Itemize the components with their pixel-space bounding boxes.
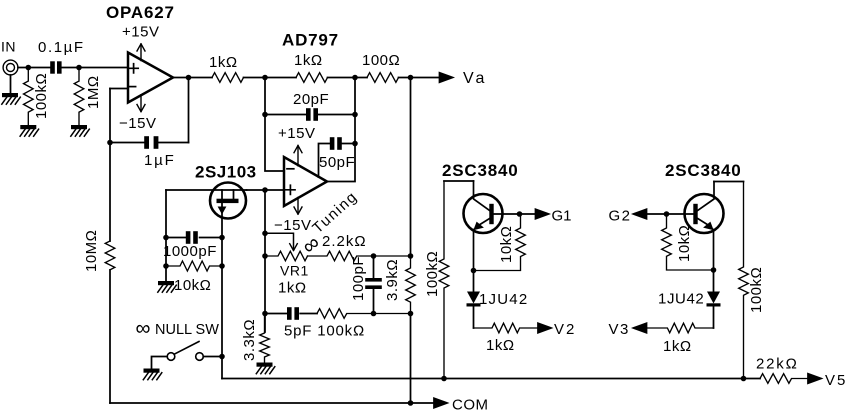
wire U1 output row <box>173 77 212 79</box>
node rail Q1 <box>441 376 447 382</box>
capacitor C 20pF <box>306 108 318 121</box>
op-amp U2 AD797 <box>284 157 327 206</box>
svg-text:0.1µF: 0.1µF <box>38 39 85 56</box>
svg-text:1kΩ: 1kΩ <box>486 337 515 354</box>
wire VR1 wiper arm <box>265 233 297 250</box>
node input-1M <box>76 65 82 71</box>
svg-text:1kΩ: 1kΩ <box>663 338 692 355</box>
switch SW1 (NULL) <box>152 342 223 369</box>
wire U2 output and right riser x355 <box>327 78 355 182</box>
arrow output COM <box>434 398 447 408</box>
capacitor C 100pF (vertical) <box>365 256 382 314</box>
svg-text:V3: V3 <box>609 321 630 338</box>
trimmer VR1 1kΩ zigzag <box>265 251 307 261</box>
node Q2 base <box>664 211 670 217</box>
svg-text:1µF: 1µF <box>144 152 176 169</box>
arrow output G1 <box>536 209 549 219</box>
svg-text:Va: Va <box>463 70 487 87</box>
svg-text:OPA627: OPA627 <box>106 3 175 22</box>
op-amp U1 OPA627 <box>128 53 173 103</box>
svg-text:V5: V5 <box>825 372 847 389</box>
wire Va column x410 lower <box>410 314 412 404</box>
wire U1 output drop to 1uF <box>188 78 190 143</box>
arrow output V5 <box>808 374 821 384</box>
ground (under IN) <box>2 93 21 104</box>
wire U1 inverting input to left rail <box>110 88 128 90</box>
svg-text:2SC3840: 2SC3840 <box>665 161 742 180</box>
supply +15V arrow (U1) <box>137 44 145 111</box>
node feedback A <box>262 75 268 81</box>
node row255 x373 <box>371 253 377 259</box>
wire U2 plus input <box>247 189 285 191</box>
wire cap to opamp <box>62 67 128 69</box>
node row255 x410 <box>408 253 414 259</box>
svg-text:VR1: VR1 <box>280 263 309 279</box>
ground (3.3k) <box>256 363 275 374</box>
node row313 x373 <box>371 311 377 317</box>
node 1000pF left <box>163 235 169 241</box>
svg-text:1JU42: 1JU42 <box>479 291 528 308</box>
resistor R 3.9kΩ (vertical) <box>406 256 416 314</box>
ground (under 100k) <box>20 125 39 136</box>
svg-text:1000pF: 1000pF <box>163 243 217 260</box>
svg-text:1kΩ: 1kΩ <box>294 52 323 69</box>
node gate-switch <box>219 354 225 360</box>
svg-text:1MΩ: 1MΩ <box>85 75 102 109</box>
wire 1k2 to node <box>328 77 368 79</box>
supply -15V arrow (U1) <box>137 105 145 112</box>
resistor R 10kΩ (Q2 b-e, vertical) <box>662 214 714 270</box>
ground (under 1M) <box>71 125 90 136</box>
wire left rail x110 (U1 minus down to COM) <box>109 89 111 404</box>
node Q2 emitter junction <box>711 267 717 273</box>
wire U2 minus rail x265 <box>265 78 284 172</box>
svg-text:20pF: 20pF <box>293 91 329 108</box>
svg-text:10MΩ: 10MΩ <box>83 230 100 272</box>
resistor R 3.3kΩ (vertical) <box>260 314 270 363</box>
arrow output Va <box>440 73 453 83</box>
wire gate column x222 down <box>221 238 223 379</box>
resistor R 100kΩ (Q2 collector, vertical) <box>739 182 749 379</box>
resistor R 100Ω <box>367 73 399 83</box>
svg-text:1kΩ: 1kΩ <box>278 280 307 297</box>
svg-text:100kΩ: 100kΩ <box>424 251 441 297</box>
node rail Q2 <box>741 376 747 382</box>
transistor Q2 2SC3840 (NPN mirrored) <box>646 182 724 271</box>
node Q1 emitter junction <box>471 268 477 274</box>
svg-text:10kΩ: 10kΩ <box>676 225 693 262</box>
svg-text:2SC3840: 2SC3840 <box>442 161 519 180</box>
svg-text:∞: ∞ <box>136 317 151 340</box>
wire 1k to node <box>244 77 297 79</box>
svg-text:+15V: +15V <box>122 24 159 41</box>
resistor R 10MΩ (left rail) <box>105 241 115 270</box>
ground (switch) <box>143 369 162 380</box>
resistor R 10kΩ (JFET) <box>166 261 222 271</box>
wire Q1 emitter to diode <box>473 271 475 292</box>
resistor R 100kΩ (Q1 collector, vertical) <box>439 181 449 379</box>
node 1uF left <box>107 140 113 146</box>
svg-text:10kΩ: 10kΩ <box>174 277 211 294</box>
node VR1 left <box>262 253 268 259</box>
ground (1000pF node) <box>158 281 177 292</box>
svg-text:AD797: AD797 <box>282 31 339 50</box>
svg-text:50pF: 50pF <box>319 154 355 171</box>
arrow output V2 <box>538 323 551 333</box>
arrow output V3 <box>634 323 647 333</box>
resistor R 100kΩ (servo) <box>317 309 411 319</box>
wire 100R to Va <box>399 77 441 79</box>
node 50pF right <box>352 141 358 147</box>
svg-text:IN: IN <box>1 39 16 55</box>
node COM x410 <box>408 400 414 406</box>
node Va column <box>408 75 414 81</box>
capacitor C 1µF (U1 feedback) <box>110 136 189 149</box>
resistor R 1kΩ (Q1 out) <box>474 323 539 333</box>
svg-text:2SJ103: 2SJ103 <box>195 163 257 182</box>
node U2 out top <box>352 75 358 81</box>
wire 20pF row <box>265 114 355 116</box>
connector J1 (input jack) <box>3 60 18 75</box>
node Q1 base <box>517 211 523 217</box>
svg-text:5pF 100kΩ: 5pF 100kΩ <box>284 323 365 340</box>
wire Q2 emitter to diode <box>713 270 715 292</box>
svg-text:100pF: 100pF <box>350 256 367 301</box>
resistor R 1MΩ <box>74 68 84 126</box>
svg-text:100Ω: 100Ω <box>362 52 400 69</box>
supply -15V arrow (U2) <box>294 207 302 214</box>
capacitor C 1000pF <box>166 231 222 244</box>
node 5pF left <box>262 311 268 317</box>
resistor R 1kΩ (U2 feedback) <box>296 73 328 83</box>
svg-text:3.9kΩ: 3.9kΩ <box>384 259 401 301</box>
svg-text:3.3kΩ: 3.3kΩ <box>241 319 258 361</box>
svg-text:2.2kΩ: 2.2kΩ <box>322 233 367 250</box>
resistor R 1kΩ (U1 out) <box>212 73 243 83</box>
wire COM rail <box>110 402 434 404</box>
arrow output G2 <box>634 209 647 219</box>
svg-text:G1: G1 <box>552 208 572 225</box>
svg-text:−15V: −15V <box>119 115 156 132</box>
svg-text:22kΩ: 22kΩ <box>756 356 799 373</box>
capacitor C 0.1µF <box>50 61 61 73</box>
svg-text:+15V: +15V <box>278 125 315 142</box>
svg-text:1kΩ: 1kΩ <box>209 54 238 71</box>
resistor R 100kΩ (input) <box>23 68 33 126</box>
node U1 output <box>186 75 192 81</box>
wire JFET drain down left <box>165 190 167 238</box>
node input-100k <box>26 65 32 71</box>
wire Va column x410 upper <box>410 78 412 257</box>
capacitor C 5pF <box>287 307 299 320</box>
resistor R 1kΩ (Q2 out) <box>646 323 714 333</box>
diode D1 1JU42 <box>467 292 481 329</box>
resistor R 10kΩ (Q1 b-e, vertical) <box>474 214 526 271</box>
node 10k right <box>219 263 225 269</box>
node 10k left <box>163 263 169 269</box>
svg-text:Tuning: Tuning <box>309 188 361 237</box>
svg-text:G2: G2 <box>609 208 632 225</box>
transistor Q3 2SJ103 (p-JFET) <box>166 183 247 238</box>
diode D2 1JU42 <box>707 292 721 329</box>
node wiper tap <box>262 231 268 237</box>
node 20pF right <box>352 112 358 118</box>
node plus input <box>262 187 268 193</box>
transistor Q1 2SC3840 (NPN) <box>464 181 537 271</box>
resistor R 2.2kΩ <box>308 251 411 261</box>
svg-text:10kΩ: 10kΩ <box>498 226 515 263</box>
wire Q1 collector elbow <box>444 180 474 182</box>
node 1000pF right <box>219 235 225 241</box>
svg-text:V2: V2 <box>554 321 576 338</box>
supply +15V arrow (U2) <box>294 146 302 214</box>
wire plus-node rail x265 down <box>264 190 266 332</box>
capacitor C 50pF (comp) <box>319 137 356 177</box>
svg-text:100kΩ: 100kΩ <box>748 267 765 313</box>
svg-text:NULL SW: NULL SW <box>155 322 219 338</box>
wire input row <box>18 67 50 69</box>
wire bottom rail V5 <box>222 378 760 380</box>
svg-text:1JU42: 1JU42 <box>658 291 704 308</box>
svg-text:100kΩ: 100kΩ <box>33 73 50 119</box>
wire 1000pF left down <box>165 238 167 282</box>
node 20pF left <box>262 112 268 118</box>
resistor R 22kΩ <box>760 374 808 384</box>
svg-text:COM: COM <box>452 397 489 414</box>
wire connector stem <box>10 75 12 93</box>
node row313 x410 <box>408 311 414 317</box>
wire Q2 collector elbow <box>714 181 744 183</box>
wire 5pF row <box>265 313 317 315</box>
